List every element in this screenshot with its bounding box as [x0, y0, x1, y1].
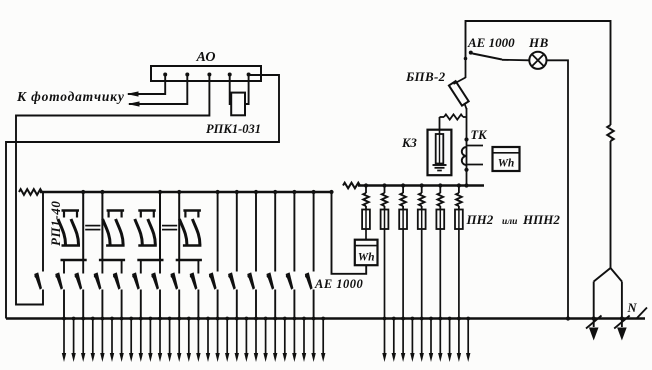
cable Y-split: [594, 268, 622, 282]
fuse 2 outgoing line: [384, 229, 386, 319]
fuse PN2 #1: [362, 210, 370, 230]
knife switch QS2 (AE 1000 row): [74, 272, 82, 289]
terminal dots of AO with stems: [163, 73, 167, 77]
fuse BPV-2 (tilted): [454, 78, 466, 85]
right supply conductor: [610, 125, 612, 141]
knife switch QS11 (AE 1000 row): [247, 272, 255, 289]
terminal 4 stem to RPK relay: [230, 75, 232, 105]
outgoing feeder arrow L18: [226, 319, 228, 355]
outgoing feeder arrow L2: [73, 319, 75, 355]
feeder drop wire 6 from bus: [313, 192, 315, 272]
wire switch QS2 to neutral rail: [82, 290, 84, 319]
feeder drop wire 3 from bus: [255, 192, 257, 272]
outgoing feeder arrow L16: [207, 319, 209, 355]
knife switch QS8 (AE 1000 row): [190, 272, 198, 289]
wire switch QS1 to neutral rail: [63, 290, 65, 319]
contactor pole 2 lower bars: [106, 244, 125, 246]
svg-text:ПН2: ПН2: [466, 212, 494, 227]
feeder arrowheads with slashes: [589, 328, 599, 341]
knife switch QS14 (AE 1000 row): [305, 272, 313, 289]
outgoing feeder arrow L20: [245, 319, 247, 355]
box AO (automatic lighting device): [151, 66, 261, 81]
fuse PN2 #2: [381, 210, 389, 230]
outgoing feeder arrow L1: [63, 319, 65, 355]
outgoing feeder arrow L4: [92, 319, 94, 355]
outgoing feeder arrow L22: [265, 319, 267, 355]
neutral rail: [6, 317, 645, 320]
wire switch QS7 to neutral rail: [178, 290, 180, 319]
feeder drop wire 4 from bus: [274, 192, 276, 272]
outgoing feeder arrow L8: [130, 319, 132, 355]
branch wire with squiggle to KZ box: [463, 116, 467, 118]
metering tap drop (bus end) to lower Wh meter: [329, 190, 333, 194]
fuse PN2 #5: [436, 210, 444, 230]
wire switch QS6 to neutral rail: [159, 290, 161, 319]
outgoing feeder arrow L19: [236, 319, 238, 355]
fuse PN2 #3: [399, 210, 407, 230]
outgoing feeder arrow L14: [188, 319, 190, 355]
right bus break zigzag: [343, 183, 360, 189]
terminal 3 wire: down, left to x16, down, right, up to knife switch: [16, 75, 209, 305]
relay RPK1-031 coil box: [231, 93, 245, 116]
outgoing feeder arrow L9: [140, 319, 142, 355]
upper Wh meter box: [493, 147, 520, 171]
knife switch QS6 (AE 1000 row): [151, 272, 159, 289]
outgoing feeder arrow R9: [458, 319, 460, 355]
knife switch QS9 (AE 1000 row): [209, 272, 217, 289]
svg-text:АЕ 1000: АЕ 1000: [314, 277, 364, 291]
fuse drop 3: squiggle lead: [401, 183, 405, 187]
svg-text:или: или: [502, 217, 517, 227]
outgoing feeder arrow L23: [274, 319, 276, 355]
outgoing feeder arrow L7: [121, 319, 123, 355]
box KZ (surge protector): [428, 130, 452, 176]
contactor pole 1 top bar: [62, 209, 80, 211]
top supply wire: [466, 21, 611, 125]
contactor pole 3 top bar: [138, 209, 156, 211]
lower Wh meter box: [365, 229, 367, 240]
svg-text:N: N: [627, 301, 638, 315]
TK secondary stubs to Wh: [467, 145, 484, 147]
knife switch QS4 (AE 1000 row): [113, 272, 121, 289]
svg-text:Wh: Wh: [358, 252, 375, 264]
wire switch QS5 to neutral rail: [140, 290, 142, 319]
outgoing feeder arrow R3: [402, 319, 404, 355]
KZ inner element: [436, 134, 444, 164]
knife switch QS13 (AE 1000 row): [286, 272, 294, 289]
contactor RP1-40 pole 1: feed drop: [82, 192, 84, 260]
outgoing feeder arrow R5: [421, 319, 423, 355]
bus break zigzag (left end): [19, 189, 42, 195]
outgoing feeder arrow R2: [393, 319, 395, 355]
wire breaker down to fuse BPV-2: [465, 59, 467, 79]
contactor RP1-40 pole 4: feed drop: [178, 192, 180, 260]
outgoing feeder arrow L6: [111, 319, 113, 355]
knife switch QS10 (AE 1000 row): [228, 272, 236, 289]
fuse 3 outgoing line: [402, 229, 404, 319]
switch QS0 drop from bus to AO circuit: [42, 192, 44, 272]
svg-text:АО: АО: [196, 50, 216, 65]
outgoing feeder arrow L27: [313, 319, 315, 355]
contactor pole 3 lower bars: [138, 244, 157, 246]
mechanical linkage pole3-pole4: [162, 225, 177, 227]
fuse drop 1: squiggle lead: [364, 183, 368, 187]
knife switch QS12 (AE 1000 row): [266, 272, 274, 289]
outgoing feeder arrow R4: [411, 319, 413, 355]
feeder drop wire 1 from bus: [217, 192, 219, 272]
svg-text:АЕ 1000: АЕ 1000: [467, 35, 515, 50]
outgoing feeder arrow L15: [197, 319, 199, 355]
fuse 6 outgoing line: [458, 229, 460, 319]
outgoing feeder arrow L5: [101, 319, 103, 355]
ground symbol inside KZ: [433, 164, 447, 166]
wire switch QS11 to neutral rail: [255, 290, 257, 319]
current transformer TK on phase wire: [466, 117, 468, 186]
fuse 5 outgoing line: [439, 229, 441, 319]
fuse drop 5: squiggle lead: [438, 183, 442, 187]
contactor pole 4 contact blades: [179, 219, 187, 245]
wire switch QS12 to neutral rail: [274, 290, 276, 319]
wire to lamp: [502, 59, 529, 62]
outgoing feeder arrow R7: [439, 319, 441, 355]
outgoing feeder arrow L26: [303, 319, 305, 355]
contactor pole 1 contact blades: [58, 219, 66, 245]
outgoing feeder arrow L11: [159, 319, 161, 355]
outgoing feeder arrow L24: [284, 319, 286, 355]
fuse drop 2: squiggle lead: [382, 183, 386, 187]
outgoing feeder arrow L17: [217, 319, 219, 355]
terminal 2 stem+wire to photo-sensor arrow: [129, 75, 187, 105]
terminal 5 wire right and down to neutral rail via left side: [6, 75, 279, 319]
fuse PN2 #4: [418, 210, 426, 230]
feeder drop wire 2 from bus: [236, 192, 238, 272]
svg-text:НПН2: НПН2: [522, 212, 560, 227]
svg-text:Wh: Wh: [498, 158, 515, 170]
outgoing feeder arrow R6: [430, 319, 432, 355]
svg-text:РПК1-031: РПК1-031: [206, 122, 261, 136]
outgoing feeder arrow L10: [149, 319, 151, 355]
lamp NV (indicator): [529, 52, 546, 69]
svg-text:К фотодатчику: К фотодатчику: [16, 89, 125, 104]
left phase bus: [40, 191, 333, 194]
wire switch QS9 to neutral rail: [217, 290, 219, 319]
right phase bus: [358, 184, 484, 187]
outgoing feeder arrow L3: [82, 319, 84, 355]
contactor pole 1 lower bars: [62, 244, 81, 246]
contactor RP1-40 pole 2: feed drop: [101, 192, 103, 260]
wire lamp to neutral rail: [547, 60, 569, 318]
svg-text:КЗ: КЗ: [401, 136, 417, 150]
contactor pole 4 lower bars: [183, 244, 202, 246]
wire switch QS14 to neutral rail: [313, 290, 315, 319]
outgoing feeder arrow L25: [293, 319, 295, 355]
rail end slash: [637, 308, 648, 319]
outgoing feeder arrow R1: [384, 319, 386, 355]
outgoing feeder arrow L21: [255, 319, 257, 355]
terminal 1 stem+wire to photo-sensor arrow: [128, 75, 165, 95]
wire switch QS3 to neutral rail: [101, 290, 103, 319]
svg-text:БПВ-2: БПВ-2: [405, 69, 446, 84]
outgoing feeder arrow L13: [178, 319, 180, 355]
breaker AE 1000 (top) blade: [464, 57, 468, 61]
outgoing feeder arrow L12: [169, 319, 171, 355]
contactor pole 3 contact blades: [135, 219, 143, 245]
fuse drop 6: squiggle lead: [457, 183, 461, 187]
fuse drop 4: squiggle lead: [420, 183, 424, 187]
terminal 5 stem to RPK right side: [245, 75, 249, 105]
wire switch QS10 to neutral rail: [236, 290, 238, 319]
outgoing feeder arrow L28: [322, 319, 324, 355]
contactor pole 2 top bar: [107, 209, 125, 211]
mechanical linkage pole1-pole2: [85, 225, 100, 227]
knife switch QS5 (AE 1000 row): [132, 272, 140, 289]
knife switch QS3 (AE 1000 row): [94, 272, 102, 289]
outgoing feeder arrow R8: [449, 319, 451, 355]
contactor pole 4 top bar: [183, 209, 201, 211]
outgoing feeder arrow R10: [467, 319, 469, 355]
contactor pole 2 contact blades: [103, 219, 111, 245]
knife switch QS7 (AE 1000 row): [170, 272, 178, 289]
contactor RP1-40 pole 3: feed drop: [159, 192, 161, 260]
fuse 4 outgoing line: [421, 229, 423, 319]
fuse PN2 #6: [455, 210, 463, 230]
wire switch QS4 to neutral rail: [121, 290, 123, 319]
svg-text:НВ: НВ: [528, 35, 549, 50]
wire switch QS13 to neutral rail: [293, 290, 295, 319]
feeder drop wire 5 from bus: [293, 192, 295, 272]
wire switch QS8 to neutral rail: [197, 290, 199, 319]
svg-text:ТК: ТК: [471, 128, 489, 142]
knife switch QS1 (AE 1000 row): [55, 272, 63, 289]
